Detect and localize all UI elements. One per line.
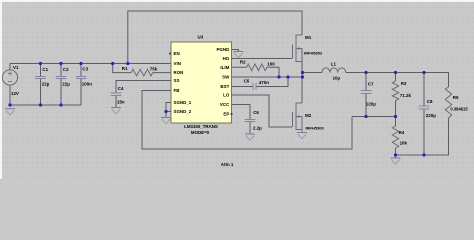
transistor M1 bulk arrow [297, 47, 300, 50]
svg-text:C6: C6 [253, 110, 259, 115]
wire: R5 bottom to ground rail [396, 118, 449, 155]
svg-text:HG: HG [223, 56, 230, 61]
svg-text:R1: R1 [122, 66, 128, 71]
svg-text:15n: 15n [117, 100, 125, 105]
svg-text:RON: RON [174, 70, 184, 75]
svg-text:R4: R4 [399, 130, 405, 135]
svg-text:12V: 12V [11, 91, 19, 96]
wire: ILIM pin to R2 [232, 67, 280, 77]
wire: BST pin to C5 to SW [232, 77, 289, 87]
capacitor C3 plates [76, 77, 87, 79]
svg-text:V1: V1 [13, 65, 19, 70]
junction: C3 top [79, 62, 82, 65]
capacitor C2 plates [56, 77, 67, 79]
junction: C2 top [59, 62, 62, 65]
junction: C8 bottom [422, 153, 425, 156]
svg-text:PGND: PGND [216, 47, 230, 52]
svg-text:470n: 470n [259, 80, 269, 85]
svg-text:10k: 10k [400, 141, 408, 146]
junction: SGND join [164, 110, 167, 113]
wire: C1 stems [40, 64, 42, 106]
resistor R1 zigzag [131, 69, 153, 76]
svg-text:ILIM: ILIM [220, 65, 229, 70]
capacitor C7 plates [361, 91, 372, 94]
junction: C7 top [364, 71, 367, 74]
IC U3 LM3150_TRANS body [171, 42, 232, 123]
svg-text:VCC: VCC [220, 102, 230, 107]
svg-text:C4: C4 [118, 86, 124, 91]
wire: mid rail divider to feedback [352, 116, 396, 118]
transistor M2 [293, 103, 303, 133]
wire: SS pin to C4 [116, 81, 171, 108]
junction: C1 top [39, 62, 42, 65]
svg-text:R2: R2 [240, 60, 246, 65]
svg-text:MODE=0: MODE=0 [191, 130, 210, 135]
wire: LO pin to M2 gate [232, 95, 293, 127]
resistor R2 zigzag [247, 64, 268, 71]
capacitor C5 plates [253, 83, 256, 90]
junction: R1 tap [111, 62, 114, 65]
canvas left border [0, 0, 2, 179]
svg-text:VIN: VIN [174, 61, 181, 66]
svg-text:SGND_1: SGND_1 [174, 100, 192, 105]
svg-text:M1: M1 [305, 35, 312, 40]
svg-text:BST: BST [220, 84, 229, 89]
wire: SW node vertical M1 source to M2 drain [301, 49, 303, 104]
wire: C3 stems [80, 64, 82, 106]
junction: R4 bottom [394, 153, 397, 156]
wire: V1 bottom stem [9, 85, 11, 105]
wire: HG pin to M1 gate [232, 58, 293, 60]
junction: C7 bottom [364, 115, 367, 118]
svg-text:SW: SW [222, 75, 230, 80]
junction: divider mid [394, 115, 397, 118]
svg-text:C1: C1 [42, 67, 48, 72]
svg-text:L1: L1 [331, 61, 337, 66]
wire: V1 top stem [9, 64, 11, 71]
svg-text:C2: C2 [63, 67, 69, 72]
wire: SGND_1 and SGND_2 to ground [166, 103, 171, 118]
svg-text:IRFH5302: IRFH5302 [304, 51, 323, 56]
junction: L1 at FET leg [301, 71, 304, 74]
svg-text:220µ: 220µ [426, 113, 436, 118]
wire: PGND pin to ground [232, 50, 239, 52]
wire: C7 stems [365, 73, 367, 117]
wire: VIN loop to M1 drain [128, 11, 302, 64]
resistor R3 zigzag [392, 81, 398, 101]
svg-text:100n: 100n [82, 82, 92, 87]
ground: C4 soft-start [111, 108, 121, 114]
pin terminal: EP [231, 113, 233, 115]
svg-text:LM3150_TRANS: LM3150_TRANS [184, 124, 218, 129]
svg-text:FB: FB [174, 88, 180, 93]
junction: VIN loop tap [126, 62, 129, 65]
wire: VCC pin to C6 [232, 105, 251, 135]
transistor M2 bulk arrow [297, 115, 300, 118]
capacitor C4 plates [111, 93, 122, 96]
svg-text:EP: EP [223, 111, 229, 116]
inductor L1 [322, 68, 346, 73]
wire: C2 stems [60, 64, 62, 106]
wire: R4 stems [395, 117, 397, 159]
svg-text:IRFH5300: IRFH5300 [306, 125, 325, 130]
svg-text:C8: C8 [427, 99, 433, 104]
svg-text:LO: LO [223, 93, 230, 98]
capacitor C6 plates [245, 120, 256, 122]
junction: ILIM to SW [277, 75, 280, 78]
junction: C1 bottom [39, 103, 42, 106]
svg-text:R5: R5 [453, 95, 459, 100]
junction: SW at FET leg [301, 75, 304, 78]
resistor R5 zigzag [445, 87, 451, 118]
svg-text:SGND_2: SGND_2 [174, 109, 192, 114]
svg-text:22µ: 22µ [42, 82, 50, 87]
svg-text:75k: 75k [150, 66, 158, 71]
capacitor C8 plates [419, 106, 430, 109]
resistor R4 zigzag [392, 126, 398, 148]
junction: R3 top [394, 71, 397, 74]
svg-text:2.2µ: 2.2µ [253, 125, 262, 130]
wire: FB feedback run [142, 91, 352, 150]
capacitor C1 plates [35, 77, 46, 79]
canvas top border [0, 0, 474, 2]
junction: V1 bottom [8, 103, 11, 106]
wire: L1 rail from SW vertical [303, 73, 449, 88]
svg-text:R3: R3 [401, 81, 407, 86]
wire: SW pin rail [232, 76, 303, 78]
svg-text:71.2k: 71.2k [400, 93, 412, 98]
ground: C6 [245, 134, 255, 140]
svg-text:C7: C7 [368, 82, 374, 87]
ground: SGND [161, 118, 171, 124]
junction: C8 top [422, 71, 425, 74]
svg-text:0.384615: 0.384615 [450, 106, 468, 111]
svg-text:M2: M2 [305, 113, 312, 118]
svg-text:C3: C3 [82, 67, 88, 72]
junction: C5 to SW [286, 75, 289, 78]
svg-text:SS: SS [174, 78, 180, 83]
ground: V1 [5, 109, 15, 115]
wire: R3 stems [395, 73, 397, 117]
transistor M1 [293, 35, 303, 63]
ground: output divider [391, 158, 401, 164]
wire: VIN rail from V1 to IC VIN pin [10, 63, 171, 65]
svg-text:100: 100 [267, 62, 275, 67]
svg-text:22µ: 22µ [62, 82, 70, 87]
pin terminal: EN [169, 53, 171, 55]
svg-text:Attn 1: Attn 1 [221, 162, 234, 167]
svg-text:10µ: 10µ [333, 76, 341, 81]
ground: M2 source [297, 133, 307, 139]
junction: C2 bottom [59, 103, 62, 106]
wire: R1 branch from VIN rail to RON pin [113, 64, 171, 73]
svg-text:EN: EN [174, 51, 180, 56]
svg-text:120µ: 120µ [366, 102, 376, 107]
ground: PGND [234, 52, 244, 58]
wire: C8 stems [423, 73, 425, 156]
voltage source V1 [2, 70, 17, 85]
svg-text:U3: U3 [198, 35, 204, 40]
svg-text:C5: C5 [244, 79, 250, 84]
wire: input ground rail [10, 104, 81, 106]
